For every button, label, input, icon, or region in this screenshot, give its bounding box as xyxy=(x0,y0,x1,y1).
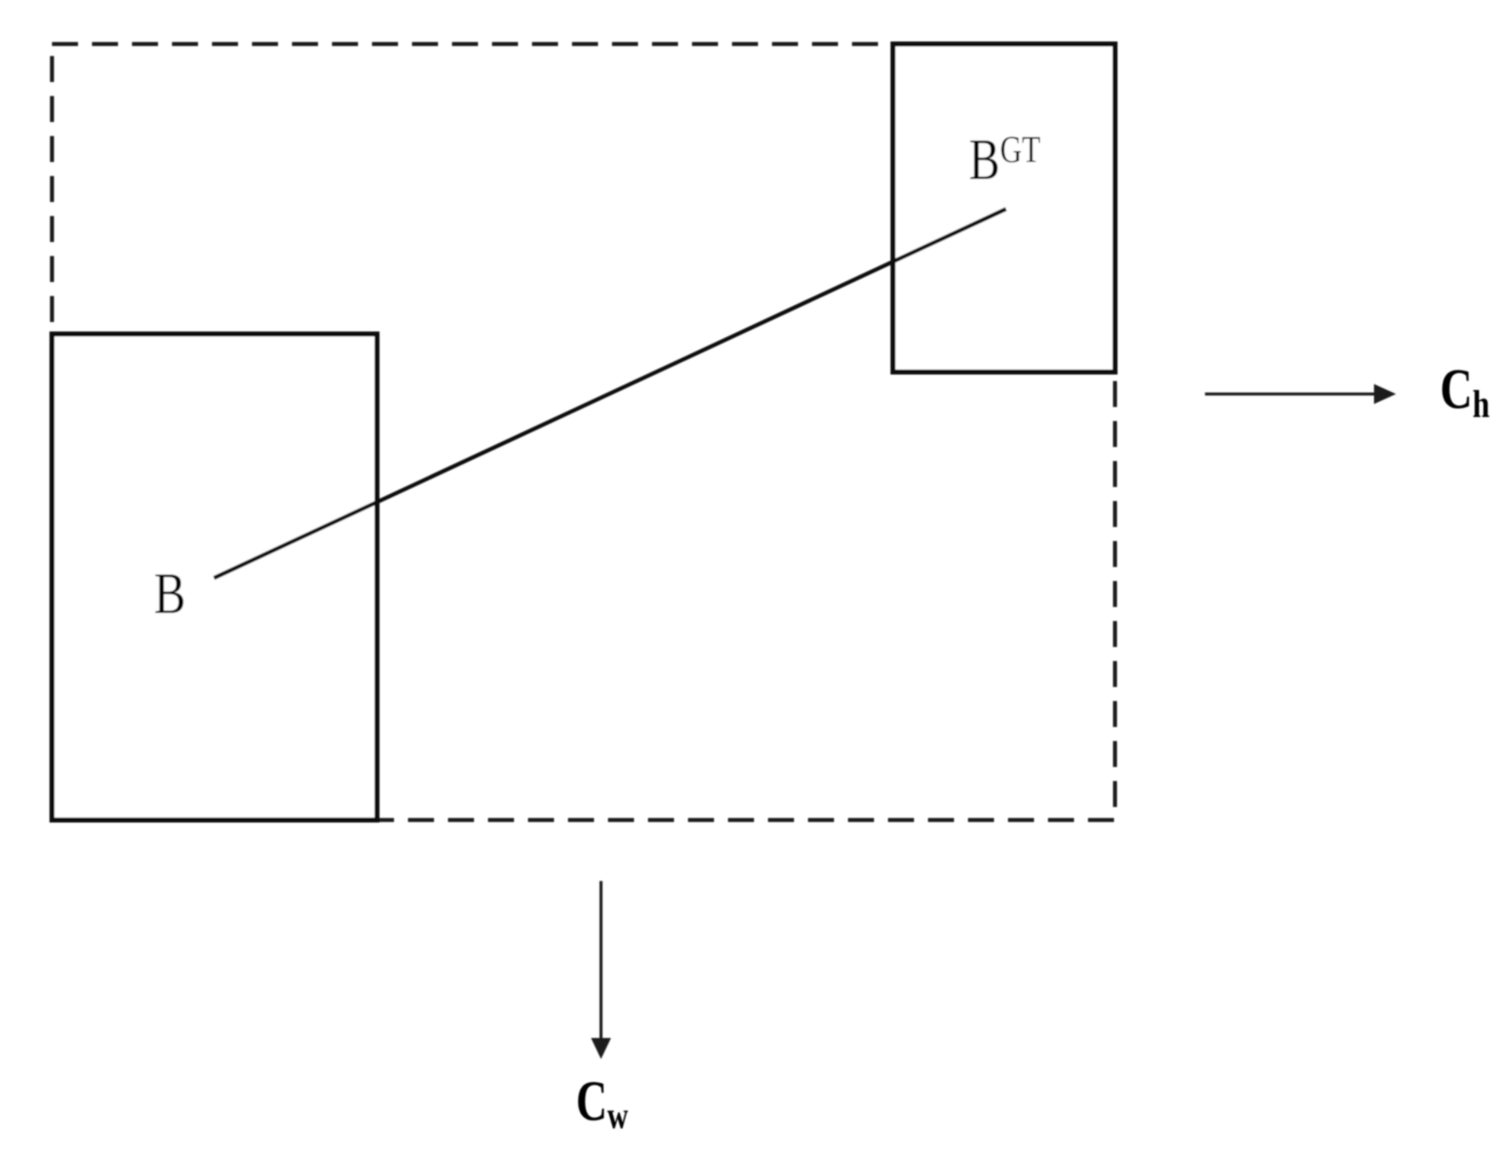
box B xyxy=(52,334,377,820)
svg-text:B: B xyxy=(154,563,186,626)
label BGT xyxy=(969,128,1040,192)
arrow Ch xyxy=(1205,393,1376,396)
label Cw xyxy=(576,1069,629,1137)
svg-text:Ch: Ch xyxy=(1440,358,1490,426)
svg-text:Cw: Cw xyxy=(576,1069,629,1137)
label Ch xyxy=(1440,358,1490,426)
arrow Cw xyxy=(600,881,603,1040)
box BGT xyxy=(893,44,1115,372)
label B xyxy=(154,563,186,626)
enclosing box C (dashed) xyxy=(52,44,1115,820)
wire center line B to BGT xyxy=(214,209,1006,578)
